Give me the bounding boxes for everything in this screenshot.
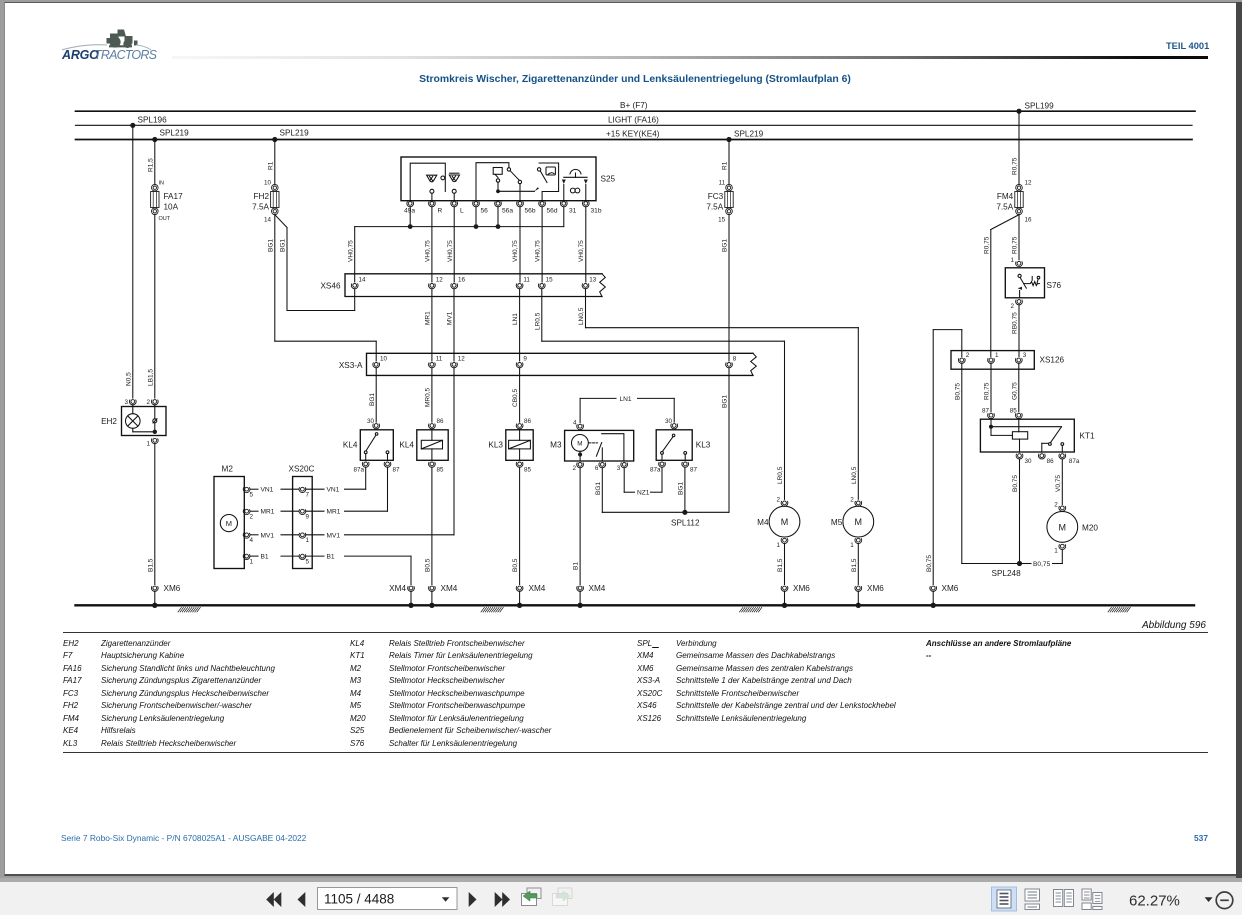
svg-text:LN0,5: LN0,5 xyxy=(851,466,858,484)
wire XS126-2 to SPL248, label B0,75 xyxy=(954,363,1019,563)
svg-text:B1: B1 xyxy=(327,554,335,561)
svg-text:11: 11 xyxy=(523,277,530,284)
svg-text:16: 16 xyxy=(1025,217,1033,224)
svg-text:87a: 87a xyxy=(650,467,661,474)
wire EH2 pin1 to XM6, label B1,5 xyxy=(147,444,154,585)
wire XS20C-5 to XM4, label B1 xyxy=(306,554,411,585)
svg-text:XM4: XM4 xyxy=(389,584,406,593)
wire SPL196 to EH2 pin3, label N0,5 xyxy=(125,125,132,398)
wire KL4-85 to XM4, label B0,5 xyxy=(425,467,432,584)
svg-text:MR1: MR1 xyxy=(425,311,432,325)
svg-text:LN0,5: LN0,5 xyxy=(578,307,585,325)
svg-text:86: 86 xyxy=(1047,458,1055,465)
svg-text:OUT: OUT xyxy=(159,216,171,222)
svg-text:56b: 56b xyxy=(525,208,536,215)
tractor logo pictogram xyxy=(107,30,138,49)
relay KL3 (contact side) xyxy=(650,418,711,474)
connector XM4 (B1) xyxy=(389,584,414,593)
svg-text:VH0,75: VH0,75 xyxy=(447,240,454,262)
relay KL3 (coil side) xyxy=(488,418,533,474)
connector XM4 (M3) xyxy=(577,584,606,593)
wire S76-2 to XS126-3, label RB0,75 xyxy=(1012,305,1019,357)
view mode: single page (selected) xyxy=(992,887,1017,911)
wiper control S25 xyxy=(401,157,616,201)
svg-text:4: 4 xyxy=(573,420,577,427)
wire FH2 branch BG1 (left, to XS3-A pin10) xyxy=(267,215,376,361)
svg-text:6: 6 xyxy=(595,465,599,472)
zoom out button xyxy=(1216,892,1233,909)
svg-text:30: 30 xyxy=(367,418,375,425)
svg-text:XS46: XS46 xyxy=(320,282,340,291)
svg-text:VH0,75: VH0,75 xyxy=(425,240,432,262)
wire XS3-A-10 to KL4 pin30, label BG1 xyxy=(369,368,376,422)
wire XS3-A-11 to KL4 coil pin86, label MR0,5 xyxy=(425,368,432,422)
svg-text:B+ (F7): B+ (F7) xyxy=(620,101,648,110)
wire SPL248 to M20-1, label B0.75 xyxy=(1020,550,1063,568)
S25 pin 31b xyxy=(582,202,601,215)
pump M5 xyxy=(831,328,874,585)
wire LN1 bridge M3-4 to KL3-30 xyxy=(580,396,674,423)
svg-text:M20: M20 xyxy=(1082,523,1098,532)
wire M2-4 to XS20C-1, label MV1 xyxy=(250,532,299,539)
svg-text:3: 3 xyxy=(1023,352,1027,359)
XS46 pin 16 xyxy=(451,277,466,289)
fuse FH2 7.5A, pins 10/14 xyxy=(252,180,279,224)
svg-text:2: 2 xyxy=(572,465,576,472)
svg-text:2: 2 xyxy=(850,497,854,504)
svg-text:12: 12 xyxy=(1025,180,1033,187)
svg-text:FC3: FC3 xyxy=(708,192,724,201)
motor M3 (rear wiper) xyxy=(550,420,634,473)
ground bus xyxy=(76,604,1195,606)
bus B+ (F7) xyxy=(76,101,1196,111)
wire M3-2 to XM4, label B1 xyxy=(573,468,580,585)
svg-text:R0,75: R0,75 xyxy=(983,236,990,254)
wire S25 R to XS46 pin12, label VH0,75 xyxy=(425,207,432,282)
svg-text:BG1: BG1 xyxy=(678,482,685,495)
svg-text:4: 4 xyxy=(250,537,254,544)
svg-text:KT1: KT1 xyxy=(1080,432,1095,441)
svg-text:5: 5 xyxy=(250,492,254,499)
XS46 pin 11 xyxy=(516,277,530,289)
svg-text:S76: S76 xyxy=(1047,281,1062,290)
svg-text:31: 31 xyxy=(569,208,577,215)
svg-text:B0,5: B0,5 xyxy=(425,558,432,572)
S25 pin 49a xyxy=(404,202,415,215)
XS126 pin 3 xyxy=(1015,352,1026,363)
svg-text:15: 15 xyxy=(718,217,726,224)
svg-text:M5: M5 xyxy=(831,518,843,527)
svg-text:VH0,75: VH0,75 xyxy=(347,240,354,262)
svg-text:R0,75: R0,75 xyxy=(1012,157,1019,175)
svg-text:B1: B1 xyxy=(261,554,269,561)
fuse FA17 10A xyxy=(151,181,183,223)
svg-text:2: 2 xyxy=(1010,303,1014,310)
svg-text:14: 14 xyxy=(264,217,272,224)
svg-text:V0,75: V0,75 xyxy=(1055,475,1062,492)
svg-text:12: 12 xyxy=(458,356,466,363)
svg-text:3: 3 xyxy=(124,399,128,406)
connector XM6 (EH2) xyxy=(151,584,180,593)
svg-text:FA17: FA17 xyxy=(164,192,184,201)
wire SPL219 to FC3, label R1 xyxy=(722,140,729,185)
svg-text:M: M xyxy=(1059,522,1067,532)
svg-text:SPL219: SPL219 xyxy=(734,130,764,139)
connector XM6 (M5) xyxy=(855,584,884,593)
wire XS20C-1 to XS3-A-12 riser, label MV1 xyxy=(306,532,454,539)
svg-text:XS3-A: XS3-A xyxy=(339,361,363,370)
svg-text:FM4: FM4 xyxy=(997,192,1014,201)
svg-text:5: 5 xyxy=(306,559,310,566)
svg-text:85: 85 xyxy=(524,467,532,474)
switch S76 xyxy=(1005,257,1061,310)
svg-text:31b: 31b xyxy=(591,208,602,215)
node SPL219 (left) xyxy=(152,129,189,143)
XS46 pin 13 xyxy=(582,277,597,289)
svg-text:B1,5: B1,5 xyxy=(147,558,154,572)
wire XS46-13 to M5, label LN0,5 xyxy=(578,289,858,328)
svg-text:87a: 87a xyxy=(1069,458,1080,465)
wire FM4 branch to XS126 pin1, label R0,75 xyxy=(983,215,1019,357)
svg-text:L: L xyxy=(460,208,464,215)
wire KL3-87 to SPL112, label BG1 xyxy=(678,467,685,512)
svg-text:14: 14 xyxy=(359,277,367,284)
svg-text:M: M xyxy=(855,517,863,527)
svg-text:R1: R1 xyxy=(722,161,729,170)
svg-text:BG1: BG1 xyxy=(595,482,602,495)
connector XS3-A xyxy=(339,353,756,375)
svg-text:BG1: BG1 xyxy=(280,239,287,252)
svg-text:XM4: XM4 xyxy=(441,584,458,593)
bus +15 KEY (KE4) xyxy=(76,130,1193,140)
svg-text:SPL219: SPL219 xyxy=(160,129,190,138)
wire SPL219 to FA17, label R1,5 xyxy=(147,140,154,185)
pump M4 xyxy=(757,341,800,584)
svg-text:2: 2 xyxy=(146,399,150,406)
svg-text:R1,5: R1,5 xyxy=(147,158,154,172)
fuse FM4 7.5A, pins 12/16 xyxy=(996,180,1032,224)
wire XS46-12 to XS3-A-11, label MR1 xyxy=(425,289,432,361)
node SPL248 xyxy=(992,561,1023,578)
svg-text:S25: S25 xyxy=(601,175,616,184)
wire S25 L to XS46 pin16, label VH0,75 xyxy=(447,207,454,282)
next view icon (disabled) xyxy=(553,888,573,906)
svg-text:MV1: MV1 xyxy=(261,532,275,539)
svg-text:1: 1 xyxy=(250,559,254,566)
XS46 pin 14 xyxy=(351,277,366,289)
svg-text:SPL112: SPL112 xyxy=(671,519,700,528)
node SPL219 (middle) xyxy=(272,129,309,143)
svg-text:12: 12 xyxy=(436,277,444,284)
wire XS46-16 to XS3-A-12, label MV1 xyxy=(447,289,454,361)
XS46 pin 12 xyxy=(429,277,444,289)
svg-text:1: 1 xyxy=(1010,257,1014,264)
svg-text:56: 56 xyxy=(481,208,489,215)
connector XM6 (M4) xyxy=(781,584,810,593)
node SPL199 xyxy=(1016,102,1054,114)
wire FC3 to XS3-A pin8, label BG1 xyxy=(722,215,729,361)
connector XS126 xyxy=(951,351,1065,370)
svg-text:56a: 56a xyxy=(502,208,513,215)
svg-text:LN1: LN1 xyxy=(620,396,632,403)
svg-text:7.5A: 7.5A xyxy=(252,203,269,212)
svg-text:B1,5: B1,5 xyxy=(851,558,858,572)
XS3-A pin 11 xyxy=(429,356,443,368)
wire KT1-87a to M20-2, label V0,75 xyxy=(1055,459,1062,505)
svg-text:LN1: LN1 xyxy=(512,313,519,325)
svg-text:XM6: XM6 xyxy=(164,584,181,593)
wire KT1-30 to SPL248, label B0,75 xyxy=(1012,459,1019,564)
svg-text:MV1: MV1 xyxy=(447,311,454,325)
wire XS46-11 to XS3-A-9, label LN1 xyxy=(512,289,519,361)
wire SPL199 to FM4, label R0,75 xyxy=(1012,111,1019,184)
svg-text:7.5A: 7.5A xyxy=(996,203,1013,212)
svg-text:M: M xyxy=(577,440,582,447)
XS126 pin 1 xyxy=(988,352,999,363)
svg-text:7: 7 xyxy=(306,492,310,499)
svg-text:VH0,75: VH0,75 xyxy=(512,240,519,262)
svg-text:2: 2 xyxy=(966,352,970,359)
node SPL219 (right) xyxy=(726,130,763,143)
connector XM4 (KL3) xyxy=(516,584,546,593)
svg-text:VN1: VN1 xyxy=(327,487,340,494)
svg-text:XM6: XM6 xyxy=(942,584,959,593)
svg-text:MR0,5: MR0,5 xyxy=(425,387,432,407)
wire NZ1 M3-3 to KL3-87a xyxy=(624,467,662,496)
wire XS46-15 to M4, label LR0,5 xyxy=(534,289,784,341)
wire M2-2 to XS20C-9, label MR1 xyxy=(250,509,299,516)
wire bus to XS46 pin14, label VH0,75 xyxy=(347,227,354,282)
svg-text:56d: 56d xyxy=(547,208,558,215)
svg-text:EH2: EH2 xyxy=(101,417,117,426)
svg-text:13: 13 xyxy=(589,277,597,284)
XS126 pin 2 xyxy=(958,352,969,363)
svg-text:87: 87 xyxy=(982,408,990,415)
XS3-A pin 8 xyxy=(726,356,737,368)
svg-text:11: 11 xyxy=(436,356,443,363)
svg-text:B0,75: B0,75 xyxy=(1033,561,1051,568)
svg-text:XS20C: XS20C xyxy=(289,465,315,474)
S25 pin L xyxy=(451,202,464,215)
view mode: facing continuous xyxy=(1082,889,1102,910)
svg-text:LB1,5: LB1,5 xyxy=(147,369,154,386)
svg-text:KL3: KL3 xyxy=(488,441,503,450)
S25 pin 56d xyxy=(539,202,558,215)
svg-text:87: 87 xyxy=(690,467,698,474)
wire KL3-85 to XM4, label B0,5 xyxy=(512,467,519,584)
svg-text:VN1: VN1 xyxy=(261,487,274,494)
svg-text:M2: M2 xyxy=(222,465,234,474)
S25 pin R xyxy=(429,202,443,215)
svg-text:BG1: BG1 xyxy=(369,393,376,406)
header logo xyxy=(62,48,99,62)
wire SPL219 to FH2, label R1 xyxy=(267,140,274,185)
svg-text:CB0,5: CB0,5 xyxy=(512,389,519,407)
svg-text:NZ1: NZ1 xyxy=(637,490,650,497)
svg-text:9: 9 xyxy=(523,356,527,363)
svg-text:87a: 87a xyxy=(353,467,364,474)
svg-text:16: 16 xyxy=(458,277,466,284)
bus LIGHT (FA16) xyxy=(76,116,1193,126)
svg-text:2: 2 xyxy=(776,497,780,504)
svg-text:15: 15 xyxy=(546,277,554,284)
wire XS3-A-8 to SPL112, label BG1 xyxy=(722,368,729,513)
svg-text:XM6: XM6 xyxy=(793,584,810,593)
connector XM6 (mass right) xyxy=(930,584,959,593)
wire junction bus under S25 xyxy=(355,207,564,229)
svg-text:49a: 49a xyxy=(404,208,415,215)
node SPL112 xyxy=(671,510,700,528)
relay KL4 (contact side) xyxy=(343,418,400,474)
wire stubs XM rings to ground bus xyxy=(155,591,933,605)
view mode: continuous xyxy=(1025,889,1040,910)
prev view icon xyxy=(522,888,542,906)
connector XM4 (KL4) xyxy=(429,584,458,593)
wire FH2 branch BG1 (right, to XS46 pin14) xyxy=(275,215,355,311)
motor M2 (front wiper) xyxy=(214,465,254,569)
relay KL4 (coil side) xyxy=(399,418,448,474)
svg-text:85: 85 xyxy=(437,467,445,474)
svg-text:+15 KEY(KE4): +15 KEY(KE4) xyxy=(606,130,660,139)
legend xyxy=(63,632,1208,633)
svg-text:VH0,75: VH0,75 xyxy=(578,240,585,262)
svg-text:XS126: XS126 xyxy=(1040,356,1065,365)
svg-text:XM4: XM4 xyxy=(589,584,606,593)
svg-text:SPL199: SPL199 xyxy=(1025,102,1055,111)
svg-text:86: 86 xyxy=(524,418,532,425)
svg-text:MV1: MV1 xyxy=(327,532,341,539)
node SPL196 xyxy=(130,116,167,128)
svg-text:1: 1 xyxy=(146,441,150,448)
fuse FC3 7.5A, pins 11/15 xyxy=(706,180,733,224)
wire M2-5 to XS20C-7, label VN1 xyxy=(250,487,299,494)
svg-text:B1: B1 xyxy=(573,562,580,570)
view mode: facing xyxy=(1054,890,1074,907)
svg-text:SPL196: SPL196 xyxy=(138,116,168,125)
wire M2-1 to XS20C-5, label B1 xyxy=(250,554,299,561)
wire M3-6 to SPL112, label BG1 xyxy=(595,468,729,513)
svg-text:XM4: XM4 xyxy=(529,584,546,593)
svg-text:10: 10 xyxy=(264,180,272,187)
svg-text:30: 30 xyxy=(665,418,673,425)
svg-text:B0,75: B0,75 xyxy=(1012,475,1019,492)
svg-text:1: 1 xyxy=(306,537,310,544)
wire FM4 to S76 pin1, label R0,75 xyxy=(1012,215,1019,260)
svg-text:R: R xyxy=(438,208,443,215)
svg-text:MR1: MR1 xyxy=(261,509,275,516)
svg-text:G0,75: G0,75 xyxy=(1011,382,1018,400)
wire S25 31b to XS46 pin13, label VH0,75 xyxy=(578,207,586,282)
ground junction dots xyxy=(152,603,936,608)
svg-text:SPL248: SPL248 xyxy=(992,569,1022,578)
svg-text:MR1: MR1 xyxy=(327,509,341,516)
svg-text:M: M xyxy=(781,517,789,527)
svg-text:LR0,5: LR0,5 xyxy=(534,312,541,330)
svg-text:M: M xyxy=(226,519,232,528)
svg-text:B0,75: B0,75 xyxy=(926,555,933,572)
svg-text:BG1: BG1 xyxy=(722,395,729,408)
svg-text:30: 30 xyxy=(1025,458,1033,465)
svg-text:LR0,5: LR0,5 xyxy=(777,466,784,484)
svg-text:LIGHT (FA16): LIGHT (FA16) xyxy=(608,116,659,125)
footer xyxy=(61,833,306,843)
S25 pin 56a xyxy=(495,202,514,215)
relay timer KT1 xyxy=(980,408,1095,466)
wire S25 56d to XS46 pin15, label VH0,75 xyxy=(534,207,542,282)
svg-text:BG1: BG1 xyxy=(267,239,274,252)
svg-text:B0,75: B0,75 xyxy=(954,383,961,400)
wire FA17 to EH2 pin2, label LB1,5 xyxy=(147,215,154,398)
svg-text:1: 1 xyxy=(1054,548,1058,555)
svg-text:86: 86 xyxy=(437,418,445,425)
svg-text:RB0,75: RB0,75 xyxy=(1012,312,1019,334)
svg-text:2: 2 xyxy=(250,514,254,521)
wire XS126-1 to KT1-87, label R0,75 xyxy=(984,363,991,411)
svg-text:IN: IN xyxy=(159,181,165,187)
XS3-A pin 10 xyxy=(373,356,388,368)
svg-text:9: 9 xyxy=(306,514,310,521)
ground hatch marks xyxy=(178,607,1130,612)
XS3-A pin 12 xyxy=(451,356,466,368)
svg-text:85: 85 xyxy=(1010,408,1018,415)
svg-text:B0,5: B0,5 xyxy=(512,558,519,572)
svg-text:KL4: KL4 xyxy=(399,441,414,450)
svg-text:R1: R1 xyxy=(267,161,274,170)
S25 pin 56 xyxy=(473,202,489,215)
svg-text:M3: M3 xyxy=(550,441,562,450)
connector XS46 xyxy=(320,274,605,297)
svg-text:SPL219: SPL219 xyxy=(280,129,310,138)
svg-text:10: 10 xyxy=(380,356,388,363)
svg-text:8: 8 xyxy=(733,356,737,363)
svg-text:KL3: KL3 xyxy=(696,441,711,450)
wire XS126-3 to KT1-85, label G0,75 xyxy=(1011,363,1018,411)
wire XS20C-9 to KL4-87, label MR1 xyxy=(306,467,388,515)
svg-text:11: 11 xyxy=(719,180,726,187)
svg-text:1: 1 xyxy=(995,352,999,359)
svg-text:KL4: KL4 xyxy=(343,441,358,450)
svg-text:1: 1 xyxy=(850,542,854,549)
S25 pin 56b xyxy=(517,202,536,215)
svg-text:7.5A: 7.5A xyxy=(706,203,723,212)
svg-text:R0,75: R0,75 xyxy=(1012,236,1019,254)
svg-text:VH0,75: VH0,75 xyxy=(534,240,541,262)
motor M20 (steering column lock) xyxy=(1047,502,1098,555)
svg-text:N0,5: N0,5 xyxy=(125,372,132,386)
wire XS3-A-12 down to XS20C MV1 row xyxy=(453,368,455,535)
svg-text:10A: 10A xyxy=(164,203,179,212)
svg-text:B1,5: B1,5 xyxy=(777,558,784,572)
svg-text:XM6: XM6 xyxy=(867,584,884,593)
svg-text:2: 2 xyxy=(1054,502,1058,509)
svg-text:M4: M4 xyxy=(757,518,769,527)
S25 pin 31 xyxy=(560,202,576,215)
connector XS20C xyxy=(289,465,315,569)
svg-text:1: 1 xyxy=(776,542,780,549)
svg-text:3: 3 xyxy=(617,465,621,472)
XS3-A pin 9 xyxy=(516,356,527,368)
wire XS126-2 to XM6 (mass), label B0,75 xyxy=(926,330,962,585)
wire XS20C-7 to KL4-87a, label VN1 xyxy=(306,467,366,493)
wire XS3-A-9 to KL3 coil pin86, label CB0,5 xyxy=(512,368,519,422)
svg-text:R0,75: R0,75 xyxy=(984,382,991,400)
svg-text:FH2: FH2 xyxy=(254,192,270,201)
XS46 pin 15 xyxy=(538,277,553,289)
svg-text:BG1: BG1 xyxy=(722,239,729,252)
wire S25 56b to XS46 pin11, label VH0,75 xyxy=(512,207,520,282)
cigarette lighter EH2 xyxy=(101,399,166,448)
svg-text:87: 87 xyxy=(393,467,401,474)
